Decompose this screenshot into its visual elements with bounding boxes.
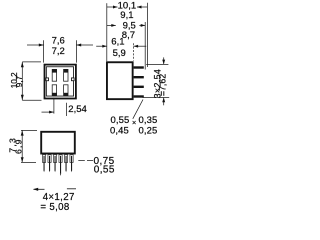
- pin slot bottom-left (view A): [52, 85, 56, 96]
- svg-text:7,6: 7,6: [52, 36, 65, 47]
- pin f3 (view C): [53, 155, 56, 173]
- pin f6 (view C): [70, 155, 73, 173]
- pin 1 side (view B): [134, 66, 144, 68]
- dimension 10,2 / 9,7 height (view A): [22, 62, 41, 100]
- svg-text:5,9: 5,9: [113, 48, 126, 59]
- label pin cross-section 0,55x0,35 / 0,45x0,25: [110, 115, 157, 136]
- svg-text:6,1: 6,1: [111, 37, 124, 48]
- pin f2 (view C): [48, 155, 51, 173]
- pin f1 (view C): [42, 155, 45, 173]
- package outline inner (view A): [46, 67, 73, 96]
- dimension 4x1,27 = 5,08 pin pitch (view C): [34, 188, 77, 191]
- pin f4 long (view C): [59, 155, 62, 176]
- svg-text:2,54: 2,54: [68, 104, 87, 115]
- svg-text:9,7: 9,7: [15, 75, 24, 87]
- side notch right (view A): [72, 78, 75, 81]
- dimension 6,1 / 5,9 body length (view B): [96, 43, 146, 61]
- leader dashed line pin width (view C): [78, 159, 93, 161]
- package outline outer (view A): [45, 65, 76, 99]
- svg-text:0,25: 0,25: [139, 126, 158, 137]
- svg-text:0,45: 0,45: [110, 126, 129, 137]
- svg-text:6,9: 6,9: [13, 138, 23, 154]
- pin slot bottom-right (view A): [64, 85, 68, 96]
- pin 4 side (view B): [134, 95, 144, 97]
- svg-text:9,1: 9,1: [120, 10, 133, 21]
- svg-text:7,2: 7,2: [52, 46, 65, 57]
- svg-text:= 5,08: = 5,08: [40, 202, 69, 213]
- dimension 3x2,54 = 7,62 pin pitch (view B): [143, 57, 170, 105]
- dimension 7,3 / 6,9 height (view C): [21, 130, 37, 162]
- pin 3 side (view B): [134, 86, 144, 88]
- pin row front (view C): 6 pins: [42, 155, 73, 176]
- package body (view C): [41, 132, 75, 154]
- dimension 10,1 / 9,1 overall length (view B): [107, 3, 148, 67]
- dimension 7,6 / 7,2 width (view A): [27, 40, 93, 62]
- leader line pin cross-section (view B): [133, 100, 143, 119]
- svg-text:=7,62: =7,62: [157, 74, 167, 96]
- pin slot top-right (view A): [64, 69, 68, 81]
- package body (view B): [107, 62, 133, 99]
- pin f5 (view C): [64, 155, 67, 173]
- pin 2 side (view B): [134, 76, 144, 78]
- pin slot top-left (view A): [52, 69, 56, 81]
- dimension 2,54 pin column pitch (view A): [42, 98, 67, 116]
- dimension 9,5 / 8,7 (view B): [107, 22, 145, 70]
- svg-text:×: ×: [132, 118, 136, 127]
- side notch left (view A): [46, 78, 49, 81]
- svg-text:0,55: 0,55: [94, 165, 115, 176]
